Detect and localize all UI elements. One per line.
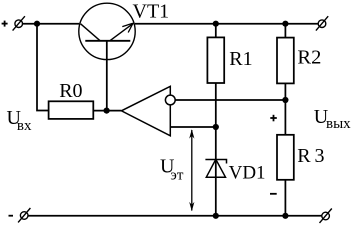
wire R0 to op-amp [93,110,121,112]
zener diode VD1 [205,159,226,177]
resistor R0 [49,101,94,119]
transistor VT1 [79,3,135,110]
wire R3 top lead [284,100,286,135]
wire top rail left [23,23,80,25]
dimension arrow Uref [189,129,194,211]
svg-text:R2: R2 [297,47,321,69]
node junction R2 top [282,21,288,27]
minus sign (input polarity) [9,215,14,217]
resistor R2 [277,38,294,84]
svg-text:VD1: VD1 [229,162,266,183]
node junction R1 top [213,21,219,27]
wire R3 bottom lead [284,180,286,216]
wire bottom rail [28,215,322,217]
resistor R3 [277,135,294,180]
wire input branch down [37,24,49,111]
svg-text:вх: вх [17,118,32,134]
terminal input + [13,16,25,30]
node junction divider mid [282,97,288,103]
terminal output bottom-right [320,209,332,223]
svg-text:вых: вых [326,116,351,132]
wire zener branch [215,127,217,216]
resistor R1 [207,37,224,83]
wire R1 bottom lead [215,83,217,127]
svg-text:R 3: R 3 [297,145,324,167]
wire inverting input to divider [175,99,285,101]
node junction reference [213,124,219,130]
op-amp U1 [121,86,175,136]
wire top rail right [135,23,318,25]
plus sign (output polarity) [270,115,277,122]
wire R1 top lead [215,24,217,38]
minus sign (output polarity) [270,193,277,195]
node junction top-left [34,21,40,27]
wire R2 top lead [284,24,286,38]
node junction base/R0 [104,108,110,114]
terminal output top-right [316,16,328,30]
plus sign (input polarity) [2,21,8,27]
wire R2 bottom lead [284,83,286,100]
svg-text:R0: R0 [59,80,82,102]
wire non-inverting input to reference [170,126,216,128]
terminal input - [18,208,30,222]
node junction R3 bottom [282,213,288,219]
node junction zener bottom [213,213,219,219]
svg-text:R1: R1 [229,48,252,70]
svg-text:эт: эт [170,168,183,184]
svg-text:VT1: VT1 [133,1,170,23]
